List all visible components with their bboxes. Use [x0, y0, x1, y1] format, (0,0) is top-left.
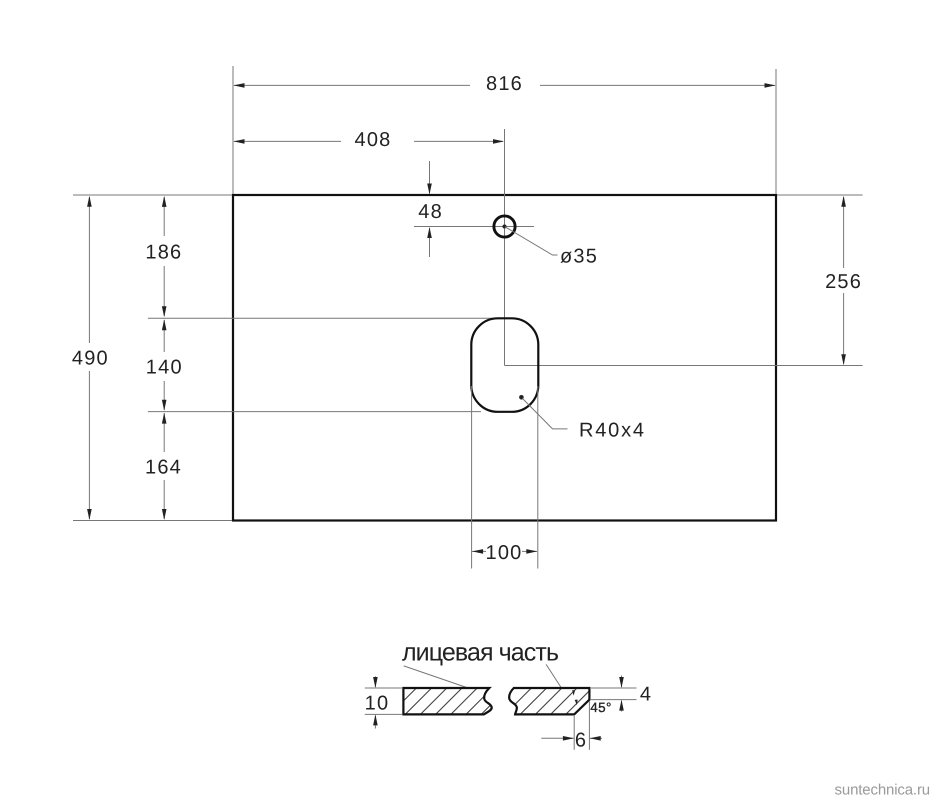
svg-text:4: 4 [640, 684, 652, 706]
dim 256 extension lines [505, 195, 863, 366]
dim 100 extension lines [472, 386, 538, 569]
svg-text:256: 256 [825, 271, 862, 293]
svg-text:лицевая часть: лицевая часть [402, 639, 558, 667]
dim 408 [234, 129, 505, 151]
dim 186 [145, 196, 182, 317]
section right bar [505, 688, 623, 714]
dim 490 extension lines [73, 195, 232, 521]
section left bar [390, 688, 508, 714]
svg-text:140: 140 [146, 356, 183, 378]
dim 48 [418, 161, 443, 257]
leader ø35 [505, 227, 598, 267]
countertop panel outline [233, 195, 776, 521]
dim 140 [146, 319, 183, 410]
dim 256 [825, 196, 862, 366]
svg-text:408: 408 [355, 129, 392, 151]
svg-text:490: 490 [72, 347, 109, 369]
hole vertical centerline [504, 129, 506, 366]
dim 45 degrees [572, 690, 612, 715]
dim 490 [72, 196, 109, 520]
svg-text:suntechnica.ru: suntechnica.ru [835, 782, 930, 799]
svg-text:6: 6 [575, 729, 587, 751]
dim 164 [145, 413, 182, 520]
svg-text:10: 10 [365, 693, 390, 715]
svg-text:100: 100 [486, 542, 523, 564]
slot top tangent extension line [148, 317, 498, 319]
dim 100 [472, 542, 537, 564]
svg-text:816: 816 [486, 73, 523, 95]
dim 6 [541, 701, 602, 751]
leader R40x4 [519, 395, 646, 442]
dim 816 [233, 66, 776, 194]
sink cutout slot R40x4 [471, 318, 538, 412]
svg-text:164: 164 [145, 456, 182, 478]
dim 4 [590, 676, 652, 712]
svg-text:186: 186 [145, 241, 182, 263]
hole horizontal centerline [414, 226, 534, 228]
label лицевая часть [402, 639, 561, 688]
svg-text:R40x4: R40x4 [579, 420, 646, 442]
slot bottom tangent extension line [148, 411, 481, 413]
svg-text:48: 48 [418, 201, 443, 223]
svg-text:45°: 45° [590, 700, 612, 715]
svg-text:ø35: ø35 [560, 245, 598, 267]
dim 10 [365, 676, 402, 728]
faucet hole ø35 [494, 216, 515, 237]
